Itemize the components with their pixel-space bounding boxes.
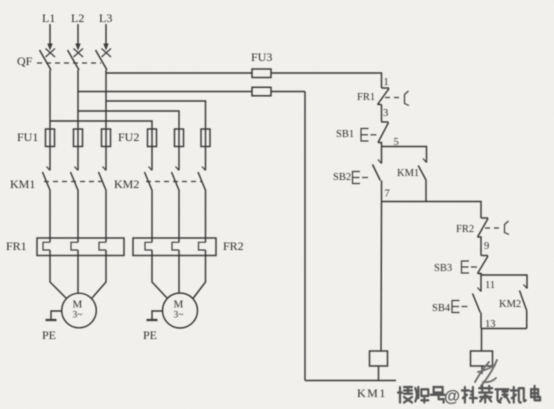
- breaker QF label: [17, 54, 33, 68]
- wire left control rail vertical: [304, 92, 306, 381]
- node 1 label: [384, 77, 389, 88]
- wire KM1 coil to bottom rail: [378, 366, 380, 381]
- pushbutton SB4 actuator E symbol: [452, 301, 468, 313]
- wire FU2 pole 2 fuse to KM2 contact: [178, 129, 180, 170]
- wire node 13 horizontal branch: [481, 328, 527, 330]
- pushbutton SB4 (NO start) blade: [473, 294, 481, 313]
- contactor KM2 auxiliary label: [499, 299, 521, 310]
- wire KM2 pole 1 to FR2: [151, 191, 153, 242]
- fuse FU3 label: [251, 50, 272, 64]
- thermal relay FR2 label: [223, 239, 244, 253]
- fuse FU3 lower: [252, 87, 271, 96]
- motor M1 circle: [62, 293, 97, 328]
- terminal L1 label: [42, 11, 55, 25]
- wire L3 incoming drop with arrowhead: [103, 24, 108, 51]
- contactor KM2 label: [114, 177, 139, 191]
- wire FU3 upper to node 1 (control hot rail top): [271, 73, 382, 88]
- wire FR2 pole 2 to motor M2: [178, 250, 180, 294]
- breaker QF pole 2 contact X mark: [74, 49, 84, 58]
- breaker QF pole 3 blade: [96, 50, 108, 70]
- fuse FU2 label: [118, 130, 139, 144]
- wire L1 tap to FU2 pole 1: [50, 121, 152, 129]
- fuse FU1 pole 3: [102, 129, 111, 147]
- coil KM2: [471, 351, 493, 366]
- fuse FU1 pole 1: [46, 129, 55, 147]
- wire SB4 lower terminal: [480, 313, 482, 329]
- breaker QF mechanical linkage dashed line: [37, 62, 101, 64]
- pushbutton SB3 label: [434, 263, 452, 274]
- thermal relay contact FR2 trip symbol: [505, 221, 510, 235]
- wire L2 tap to FU2 pole 2: [78, 111, 179, 129]
- pushbutton SB1 (NC stop): [378, 122, 389, 147]
- wire FU2 pole 3 fuse to KM2 contact: [205, 129, 207, 170]
- wire FR1 pole 3 to motor M1: [92, 250, 106, 298]
- fuse FU1 label: [17, 130, 38, 144]
- thermal relay FR2 heater element pole 1: [145, 242, 152, 250]
- contactor KM2 auxiliary contact (NO): [520, 285, 528, 329]
- pushbutton SB1 actuator E symbol: [361, 129, 377, 142]
- node 7 label: [385, 189, 390, 200]
- pushbutton SB1 label: [336, 129, 354, 140]
- wire FR1 pole 2 to motor M1: [77, 250, 79, 294]
- contactor KM2 main contact pole 1: [145, 167, 153, 192]
- wire phase L1 vertical QF to KM1 pole 1: [49, 70, 51, 170]
- node 11 label: [485, 280, 495, 291]
- wire FR1 pole 1 to motor M1: [50, 250, 66, 298]
- wire L2 incoming drop with arrowhead: [75, 24, 80, 51]
- wire main rail node 7 to KM1 coil: [380, 202, 383, 352]
- node 5 label: [394, 137, 399, 148]
- coil KM1 label: [357, 386, 387, 400]
- terminal L3 label: [99, 11, 112, 25]
- pushbutton SB2 actuator E symbol: [353, 172, 369, 184]
- contactor KM1 main contact pole 3: [99, 167, 107, 192]
- coil KM1: [370, 351, 388, 366]
- thermal relay contact FR1 dashed link: [385, 97, 400, 99]
- pushbutton SB2 label: [333, 172, 351, 183]
- wire phase L2 vertical QF to KM1 pole 2: [77, 70, 79, 170]
- fuse FU2 pole 3: [201, 129, 210, 147]
- thermal relay contact FR2 dashed link: [485, 227, 500, 229]
- ground PE for motor M2: [147, 311, 163, 320]
- fuse FU2 pole 1: [148, 129, 157, 147]
- wire node 3 segment: [381, 105, 383, 123]
- thermal relay FR1 box: [37, 238, 124, 256]
- thermal relay FR1 heater element pole 3: [99, 242, 106, 250]
- pushbutton SB4 label: [432, 303, 451, 314]
- watermark text (stylised): [398, 386, 540, 406]
- ground PE for motor M1: [46, 311, 62, 320]
- node 9 label: [484, 241, 489, 252]
- motor M2 circle: [163, 293, 198, 328]
- contactor KM1 linkage dashed line: [44, 181, 102, 183]
- thermal relay FR1 label: [6, 239, 27, 253]
- wire FU3 lower to left control rail: [271, 91, 305, 93]
- wire L3 tap to FU3 upper fuse: [106, 72, 252, 74]
- motor M1 text M 3~: [73, 299, 83, 321]
- wire SB2 lower terminal: [381, 181, 383, 202]
- thermal relay contact FR1 trip symbol: [405, 91, 410, 106]
- thermal relay FR2 box: [133, 238, 216, 256]
- thermal relay contact FR2 (NC): [478, 218, 489, 256]
- contactor KM2 linkage dashed line: [146, 181, 202, 183]
- thermal relay FR1 heater element pole 2: [71, 242, 78, 250]
- wire node 7 horizontal branch: [382, 202, 482, 219]
- breaker QF pole 2 blade: [68, 50, 80, 70]
- wire node 5 horizontal branch: [382, 147, 427, 163]
- contactor KM1 main contact pole 1: [43, 167, 51, 192]
- breaker QF pole 1 blade: [40, 50, 52, 70]
- wire KM1 pole 3 to FR1: [105, 191, 107, 242]
- wire FU2 pole 1 fuse to KM2 contact: [151, 129, 153, 170]
- pushbutton SB2 (NO start) blade: [373, 165, 381, 181]
- node 3 label: [383, 108, 388, 119]
- fuse FU1 pole 2: [74, 129, 83, 147]
- node 13 label: [485, 319, 496, 330]
- fuse FU3 upper: [252, 69, 271, 78]
- breaker QF pole 1 contact X mark: [46, 49, 56, 58]
- wire KM2 pole 2 to FR2: [178, 191, 180, 242]
- contactor KM2 main contact pole 2: [172, 167, 180, 192]
- wire node 13 to KM2 coil: [481, 329, 483, 352]
- thermal relay FR1 heater element pole 1: [43, 242, 50, 250]
- contactor KM1 main contact pole 2: [71, 167, 79, 192]
- thermal relay FR2 heater element pole 2: [172, 242, 179, 250]
- wire FR2 pole 1 to motor M2: [152, 250, 167, 298]
- thermal relay contact FR1 label: [357, 92, 375, 103]
- wire FR2 pole 3 to motor M2: [193, 250, 206, 299]
- contactor KM1 label: [10, 177, 35, 191]
- wire KM2 pole 3 to FR2: [205, 191, 207, 242]
- thermal relay FR2 heater element pole 3: [199, 242, 206, 250]
- fuse FU2 pole 2: [175, 129, 184, 147]
- wire L1 incoming drop with arrowhead: [47, 24, 52, 51]
- thermal relay contact FR2 label: [456, 224, 474, 235]
- wire L2 tap to FU3 lower fuse: [78, 91, 252, 93]
- contactor KM1 auxiliary label: [397, 168, 419, 179]
- contactor KM1 auxiliary contact (NO): [418, 159, 426, 202]
- wire KM2 coil to bottom rail: [481, 366, 483, 374]
- motor M2 text M 3~: [174, 299, 184, 321]
- thermal relay contact FR1 (NC): [378, 88, 390, 105]
- wire bottom return rail: [305, 380, 396, 382]
- wire node 11 horizontal branch: [481, 275, 527, 289]
- wire KM1 pole 2 to FR1: [77, 191, 79, 242]
- watermark scribble over KM2 coil: [475, 360, 497, 386]
- pushbutton SB3 actuator E symbol: [462, 261, 478, 273]
- wire L3 tap to FU2 pole 3: [106, 101, 206, 129]
- breaker QF pole 3 contact X mark: [102, 49, 112, 58]
- contactor KM2 main contact pole 3: [198, 167, 206, 192]
- ground PE label motor M2: [143, 328, 157, 342]
- terminal L2 label: [71, 11, 84, 25]
- ground PE label motor M1: [42, 328, 56, 342]
- wire KM1 pole 1 to FR1: [49, 191, 51, 242]
- pushbutton SB3 (NC stop): [478, 256, 489, 276]
- wire SB2 upper terminal: [378, 147, 382, 164]
- wire phase L3 vertical QF to KM1 pole 3: [105, 70, 107, 170]
- wire SB4 upper terminal: [478, 275, 482, 292]
